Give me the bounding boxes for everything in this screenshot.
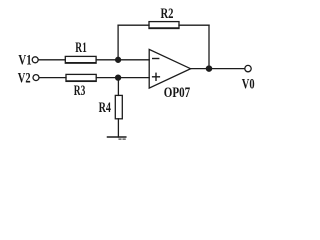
svg-text:V1: V1 [18,53,31,69]
op-amp inverting pin minus sign [153,58,159,60]
svg-text:R2: R2 [161,6,174,22]
svg-text:R4: R4 [99,100,112,116]
wire V2 to R3 [39,77,66,79]
wire R1 to op-amp inverting input [96,59,149,61]
wire feedback top left [118,24,149,26]
resistor R2 [149,22,179,29]
junction node B (non-inverting input) [116,75,121,80]
wire feedback top right [179,24,209,26]
node V0 terminal [245,65,251,71]
wire feedback left vertical [117,25,119,60]
wire feedback right vertical [208,25,210,68]
ground [108,136,126,138]
svg-text:V0: V0 [242,77,255,93]
junction node A (inverting input) [116,57,121,62]
wire op-amp output [191,68,245,70]
wire V1 to R1 [39,59,66,61]
op-amp U1 triangle [149,49,190,88]
resistor R4 [115,95,122,118]
junction output node [206,66,211,71]
svg-text:R3: R3 [74,83,86,99]
wire R3 to op-amp non-inverting input [96,77,149,79]
op-amp non-inverting pin plus sign [153,73,160,80]
svg-text:V2: V2 [18,70,31,86]
svg-text:R1: R1 [75,40,87,56]
svg-text:OP07: OP07 [164,85,190,101]
node V1 terminal [32,57,38,63]
node V2 terminal [33,75,39,81]
resistor R3 [66,74,96,81]
wire R4 to ground [117,119,119,137]
resistor R1 [65,56,96,63]
wire node B to R4 [117,78,119,96]
